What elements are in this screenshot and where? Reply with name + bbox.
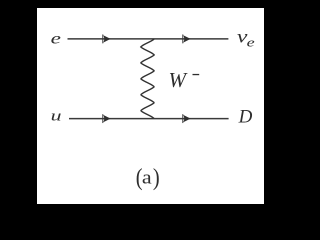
label nu_e (electron neutrino) [237, 26, 248, 46]
white figure panel [37, 8, 264, 204]
arrowhead on electron line (left) [102, 34, 110, 43]
svg-text:e: e [247, 36, 255, 50]
svg-text:u: u [51, 108, 62, 125]
label u (up quark) [51, 108, 62, 125]
W boson propagator (vertical zigzag) [141, 39, 154, 119]
svg-text:e: e [51, 30, 61, 48]
svg-text:D: D [238, 107, 253, 128]
arrowhead on D quark line (right) [182, 114, 190, 123]
svg-text:W: W [169, 68, 189, 92]
label e (electron) [51, 30, 61, 48]
svg-text:): ) [153, 163, 160, 190]
svg-text:a: a [142, 168, 152, 188]
caption (a) [136, 163, 143, 190]
arrowhead on neutrino line (right) [182, 34, 190, 43]
arrowhead on u quark line (left) [102, 114, 110, 123]
u quark line (bottom fermion line) [69, 118, 229, 120]
electron line (top fermion line) [68, 38, 229, 40]
